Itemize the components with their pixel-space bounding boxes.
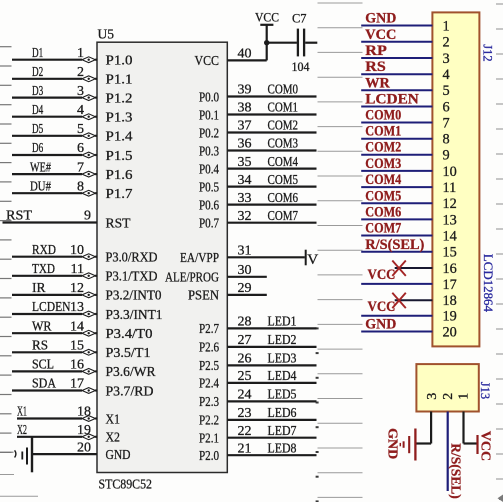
mouse cursor artifact bottom-right corner xyxy=(498,495,503,502)
J12 pin 4 wire net RS xyxy=(361,59,432,75)
svg-text:6: 6 xyxy=(77,141,84,156)
svg-text:22: 22 xyxy=(238,424,252,439)
svg-text:GND: GND xyxy=(365,317,396,333)
svg-text:17: 17 xyxy=(70,377,84,392)
U5 pin 39 wire net COM0 xyxy=(227,82,316,98)
svg-text:31: 31 xyxy=(238,244,252,259)
svg-text:17: 17 xyxy=(443,277,457,293)
capacitor C7 value 104 xyxy=(292,12,311,75)
svg-text:20: 20 xyxy=(443,324,457,340)
svg-text:23: 23 xyxy=(238,406,252,421)
U5 pin 26 wire net LED3 xyxy=(227,351,316,367)
J12 pin 5 wire net WR xyxy=(361,75,432,91)
svg-text:D3: D3 xyxy=(32,83,43,98)
U5 pin 35 wire net COM4 xyxy=(227,154,316,170)
svg-text:18: 18 xyxy=(443,293,457,309)
wire stub left of ground xyxy=(0,451,14,453)
U5 pin 28 wire net LED1 xyxy=(227,314,316,330)
svg-text:P2.2: P2.2 xyxy=(199,413,219,428)
svg-text:LCDEN: LCDEN xyxy=(365,92,419,108)
svg-text:LED8: LED8 xyxy=(268,440,297,455)
svg-text:P1.0: P1.0 xyxy=(106,53,133,68)
svg-text:RS: RS xyxy=(365,59,386,75)
svg-text:D4: D4 xyxy=(32,102,43,117)
svg-text:33: 33 xyxy=(238,191,252,206)
svg-text:COM0: COM0 xyxy=(268,82,299,97)
svg-text:IR: IR xyxy=(32,280,46,295)
svg-text:D6: D6 xyxy=(32,140,43,155)
svg-text:3: 3 xyxy=(443,51,450,67)
svg-text:P0.2: P0.2 xyxy=(199,125,219,140)
svg-text:X1: X1 xyxy=(106,411,121,426)
svg-text:V: V xyxy=(307,251,318,268)
svg-text:40: 40 xyxy=(238,47,252,62)
svg-text:COM2: COM2 xyxy=(268,118,299,133)
svg-text:7: 7 xyxy=(443,115,450,131)
J12 pin 20 wire net GND xyxy=(361,317,432,333)
svg-text:P3.3/INT1: P3.3/INT1 xyxy=(106,307,163,322)
J12 pin 12 wire net COM5 xyxy=(361,188,432,204)
background ruled lines (paper showing through gap band) xyxy=(318,3,363,497)
svg-text:15: 15 xyxy=(70,339,84,354)
svg-text:D1: D1 xyxy=(32,45,43,60)
svg-text:28: 28 xyxy=(238,315,252,330)
U5 pin 24 wire net LED5 xyxy=(227,387,316,403)
svg-text:COM5: COM5 xyxy=(365,188,401,204)
svg-text:COM4: COM4 xyxy=(268,154,299,169)
svg-text:1: 1 xyxy=(443,18,450,34)
svg-text:13: 13 xyxy=(70,300,84,315)
svg-text:37: 37 xyxy=(238,119,252,134)
J13 pin 1 wire to VCC xyxy=(464,412,477,444)
svg-text:COM5: COM5 xyxy=(268,172,299,187)
svg-text:C7: C7 xyxy=(292,12,307,26)
J12 pin 8 wire net COM1 xyxy=(361,124,432,140)
U5 pin 15 wire net RS xyxy=(12,338,97,356)
svg-text:LED5: LED5 xyxy=(268,387,297,402)
svg-text:P0.0: P0.0 xyxy=(199,89,219,104)
svg-text:36: 36 xyxy=(238,137,252,152)
U5 pin 20 wire (GND) xyxy=(32,440,97,455)
svg-text:P1.5: P1.5 xyxy=(106,148,133,163)
svg-text:9: 9 xyxy=(443,148,450,164)
U5 pin 34 wire net COM5 xyxy=(227,172,316,188)
U5 pin 17 wire net SDA xyxy=(12,376,97,394)
svg-text:X1: X1 xyxy=(17,404,27,419)
svg-text:R/S(SEL): R/S(SEL) xyxy=(365,237,424,253)
svg-text:WR: WR xyxy=(365,75,390,91)
U5 pin 29 wire xyxy=(227,281,266,296)
J12 pin 2 wire net VCC xyxy=(361,27,432,43)
svg-text:COM7: COM7 xyxy=(365,221,401,237)
svg-text:COM2: COM2 xyxy=(365,140,401,156)
svg-text:34: 34 xyxy=(238,173,252,188)
svg-text:COM1: COM1 xyxy=(268,100,299,115)
svg-text:COM0: COM0 xyxy=(365,108,401,124)
U5 pin 33 wire net COM6 xyxy=(227,190,316,206)
svg-text:COM3: COM3 xyxy=(268,136,299,151)
svg-text:X2: X2 xyxy=(17,422,27,437)
svg-text:RST: RST xyxy=(106,215,132,230)
svg-text:WE#: WE# xyxy=(30,159,51,174)
svg-text:4: 4 xyxy=(77,103,84,118)
svg-text:COM4: COM4 xyxy=(365,172,401,188)
no-connect X mark pin 16 xyxy=(392,261,406,276)
svg-text:P2.3: P2.3 xyxy=(199,394,219,409)
connector J12 body xyxy=(432,12,479,346)
svg-text:LED2: LED2 xyxy=(268,332,297,347)
svg-text:J13: J13 xyxy=(478,382,492,399)
wire C7 to sheet crop edge xyxy=(305,42,317,44)
svg-text:SCL: SCL xyxy=(32,357,54,372)
svg-text:P2.1: P2.1 xyxy=(199,431,219,446)
U5 pin 12 wire net IR xyxy=(12,280,97,298)
U5 pin 27 wire net LED2 xyxy=(227,332,316,348)
background ruled line dashes at right edge xyxy=(496,4,503,479)
J12 pin 19 wire xyxy=(361,315,432,317)
svg-text:U5: U5 xyxy=(98,27,115,42)
U5 pin 9 wire net RST xyxy=(3,208,98,224)
svg-text:LCD12864: LCD12864 xyxy=(481,254,495,313)
svg-text:11: 11 xyxy=(443,180,457,196)
svg-text:1: 1 xyxy=(456,393,471,400)
svg-text:PSEN: PSEN xyxy=(188,288,219,303)
U5 pin 37 wire net COM2 xyxy=(227,118,316,134)
svg-text:6: 6 xyxy=(443,99,450,115)
svg-text:5: 5 xyxy=(443,83,450,99)
J12 pin 11 wire net COM4 xyxy=(361,172,432,188)
U5 pin 7 wire net WE# xyxy=(12,159,97,177)
svg-text:LED6: LED6 xyxy=(268,405,297,420)
U5 pin 10 wire net RXD xyxy=(12,242,97,260)
J12 pin 15 wire net R/S(SEL) xyxy=(361,237,432,253)
svg-text:1: 1 xyxy=(77,46,84,61)
svg-text:LED1: LED1 xyxy=(268,314,297,329)
svg-text:P1.1: P1.1 xyxy=(106,72,133,87)
svg-text:2: 2 xyxy=(443,35,450,51)
svg-text:3: 3 xyxy=(425,393,440,400)
U5 pin 21 wire net LED8 xyxy=(227,440,316,456)
svg-text:P1.6: P1.6 xyxy=(106,167,133,182)
svg-text:4: 4 xyxy=(443,67,450,83)
svg-text:COM6: COM6 xyxy=(268,190,299,205)
U5 pin 36 wire net COM3 xyxy=(227,136,316,152)
svg-text:LED7: LED7 xyxy=(268,423,297,438)
svg-text:GND: GND xyxy=(384,428,399,459)
svg-text:P0.6: P0.6 xyxy=(199,197,219,212)
svg-text:VCC: VCC xyxy=(365,27,396,43)
svg-text:19: 19 xyxy=(77,423,91,438)
J12 pin 18 no-connect stub with VCC label xyxy=(368,293,433,316)
svg-text:P1.3: P1.3 xyxy=(106,110,133,125)
svg-text:COM7: COM7 xyxy=(268,208,299,223)
svg-text:COM1: COM1 xyxy=(365,124,401,140)
J12 pin 7 wire net COM0 xyxy=(361,108,432,124)
power V(CC) bar at pin 31 EA/VPP xyxy=(306,250,319,268)
svg-text:VCC: VCC xyxy=(195,53,220,68)
svg-text:P2.6: P2.6 xyxy=(199,340,219,355)
J12 pin 17 wire xyxy=(361,283,432,285)
no-connect X mark pin 18 xyxy=(392,293,406,308)
svg-text:TXD: TXD xyxy=(32,261,55,276)
U5 pin 13 wire net LCDEN xyxy=(12,299,97,317)
svg-text:R/S(SEL): R/S(SEL) xyxy=(449,443,464,499)
U5 pin 3 wire net D3 xyxy=(12,83,97,101)
U5 pin 4 wire net D4 xyxy=(12,102,97,120)
J13 pin 2 wire net R/S(SEL) xyxy=(448,412,464,499)
U5 pin 32 wire net COM7 xyxy=(227,208,316,224)
ground symbol at J13 pin 3 xyxy=(400,429,415,461)
background ruled lines bottom-left corner xyxy=(0,475,38,497)
U5 pin 18 wire net X1 xyxy=(17,404,97,422)
U5 pin 2 wire net D2 xyxy=(12,64,97,82)
svg-text:P1.2: P1.2 xyxy=(106,90,133,105)
J12 pin 6 wire net LCDEN xyxy=(361,92,432,108)
svg-text:3: 3 xyxy=(77,84,84,99)
svg-text:2: 2 xyxy=(77,65,84,80)
svg-text:DU#: DU# xyxy=(30,178,51,193)
svg-text:16: 16 xyxy=(443,261,457,277)
svg-text:VCC: VCC xyxy=(368,299,396,315)
IC U5 STC89C52 body xyxy=(97,42,227,472)
svg-text:21: 21 xyxy=(238,441,252,456)
wire junction to C7 xyxy=(267,42,297,44)
svg-text:LED4: LED4 xyxy=(268,368,297,383)
svg-text:D5: D5 xyxy=(32,121,43,136)
svg-text:19: 19 xyxy=(443,309,457,325)
U5 pin 23 wire net LED6 xyxy=(227,405,316,421)
J12 pin 9 wire net COM2 xyxy=(361,140,432,156)
svg-text:ALE/PROG: ALE/PROG xyxy=(165,270,219,285)
U5 pin 31 wire xyxy=(227,244,304,259)
wire stubs entering from left sheet edge xyxy=(0,47,12,453)
U5 pin 1 wire net D1 xyxy=(12,45,97,63)
U5 pin 25 wire net LED4 xyxy=(227,368,316,384)
U5 pin 30 wire xyxy=(227,263,266,278)
svg-text:26: 26 xyxy=(238,352,252,367)
U5 pin 22 wire net LED7 xyxy=(227,423,316,439)
svg-text:LCDEN: LCDEN xyxy=(32,299,71,314)
svg-text:D2: D2 xyxy=(32,64,43,79)
svg-text:25: 25 xyxy=(238,369,252,384)
svg-text:27: 27 xyxy=(238,333,252,348)
U5 pin 40 wire xyxy=(227,47,266,62)
svg-text:J12: J12 xyxy=(481,44,495,61)
svg-text:P1.4: P1.4 xyxy=(106,129,133,144)
J13 pin 3 wire to ground xyxy=(416,412,431,444)
svg-text:10: 10 xyxy=(70,243,84,258)
svg-text:7: 7 xyxy=(77,160,84,175)
svg-text:P3.0/RXD: P3.0/RXD xyxy=(106,250,158,265)
svg-text:P2.7: P2.7 xyxy=(199,321,219,336)
svg-text:8: 8 xyxy=(77,179,84,194)
svg-text:9: 9 xyxy=(84,209,91,224)
svg-text:COM6: COM6 xyxy=(365,204,401,220)
svg-text:P3.7/RD: P3.7/RD xyxy=(106,383,154,398)
svg-text:RST: RST xyxy=(6,208,32,223)
svg-text:VCC: VCC xyxy=(255,11,279,25)
junction node VCC/C7 xyxy=(264,40,269,45)
U5 pin 8 wire net DU# xyxy=(12,178,97,196)
connector J13 body xyxy=(416,364,478,411)
svg-text:29: 29 xyxy=(238,281,252,296)
U5 pin 19 wire net X2 xyxy=(17,422,97,440)
svg-text:14: 14 xyxy=(443,228,457,244)
svg-text:GND: GND xyxy=(365,11,396,27)
svg-text:8: 8 xyxy=(443,132,450,148)
svg-text:P0.1: P0.1 xyxy=(199,107,219,122)
svg-text:P0.7: P0.7 xyxy=(199,216,219,231)
svg-text:P2.5: P2.5 xyxy=(199,358,219,373)
power VCC symbol above pin 40 xyxy=(255,11,279,61)
svg-text:RS: RS xyxy=(32,338,48,353)
svg-text:P3.6/WR: P3.6/WR xyxy=(106,364,157,379)
svg-text:15: 15 xyxy=(443,245,457,261)
svg-text:30: 30 xyxy=(238,263,252,278)
J12 pin 10 wire net COM3 xyxy=(361,156,432,172)
svg-text:P3.1/TXD: P3.1/TXD xyxy=(106,269,158,284)
svg-text:5: 5 xyxy=(77,122,84,137)
svg-text:LED3: LED3 xyxy=(268,351,297,366)
J12 pin 14 wire net COM7 xyxy=(361,221,432,237)
J12 pin 1 wire net GND xyxy=(361,11,432,27)
svg-text:11: 11 xyxy=(71,262,84,277)
svg-text:24: 24 xyxy=(238,388,252,403)
svg-text:P0.4: P0.4 xyxy=(199,161,219,176)
svg-text:104: 104 xyxy=(292,60,311,74)
svg-text:P0.3: P0.3 xyxy=(199,143,219,158)
U5 pin 14 wire net WR xyxy=(12,318,97,336)
svg-text:SDA: SDA xyxy=(32,376,56,391)
svg-text:GND: GND xyxy=(106,447,131,462)
svg-text:P3.5/T1: P3.5/T1 xyxy=(106,345,151,360)
svg-text:RXD: RXD xyxy=(32,242,56,257)
J12 pin 3 wire net RP xyxy=(361,43,432,59)
U5 pin 16 wire net SCL xyxy=(12,357,97,375)
svg-text:32: 32 xyxy=(238,209,252,224)
U5 pin 11 wire net TXD xyxy=(12,261,97,279)
J12 pin 13 wire net COM6 xyxy=(361,204,432,220)
svg-text:WR: WR xyxy=(32,318,52,333)
svg-text:P3.4/T0: P3.4/T0 xyxy=(106,326,153,341)
svg-text:P2.0: P2.0 xyxy=(199,448,219,463)
U5 pin 6 wire net D6 xyxy=(12,140,97,158)
svg-text:38: 38 xyxy=(238,101,252,116)
svg-text:P3.2/INT0: P3.2/INT0 xyxy=(106,288,162,303)
svg-text:39: 39 xyxy=(238,83,252,98)
svg-text:14: 14 xyxy=(70,319,84,334)
svg-text:P1.7: P1.7 xyxy=(106,186,133,201)
power VCC symbol at J13 pin 1 xyxy=(477,431,492,461)
svg-text:VCC: VCC xyxy=(368,267,396,283)
svg-text:35: 35 xyxy=(238,155,252,170)
U5 pin 38 wire net COM1 xyxy=(227,100,316,116)
svg-text:2: 2 xyxy=(441,393,456,400)
svg-text:VCC: VCC xyxy=(477,431,492,461)
svg-text:13: 13 xyxy=(443,212,457,228)
svg-text:EA/VPP: EA/VPP xyxy=(180,250,219,265)
svg-text:20: 20 xyxy=(77,440,91,455)
svg-text:COM3: COM3 xyxy=(365,156,401,172)
ground symbol at U5 pin 20 xyxy=(15,438,32,473)
svg-text:STC89C52: STC89C52 xyxy=(99,478,153,493)
svg-text:10: 10 xyxy=(443,164,457,180)
svg-text:18: 18 xyxy=(77,405,91,420)
svg-text:12: 12 xyxy=(70,281,84,296)
U5 pin 5 wire net D5 xyxy=(12,121,97,139)
svg-text:12: 12 xyxy=(443,196,457,212)
svg-text:P0.5: P0.5 xyxy=(199,179,219,194)
svg-text:P2.4: P2.4 xyxy=(199,376,219,391)
svg-text:X2: X2 xyxy=(106,430,121,445)
J12 pin 16 no-connect stub with VCC label xyxy=(368,261,433,284)
svg-text:RP: RP xyxy=(365,43,387,59)
svg-text:16: 16 xyxy=(70,358,84,373)
